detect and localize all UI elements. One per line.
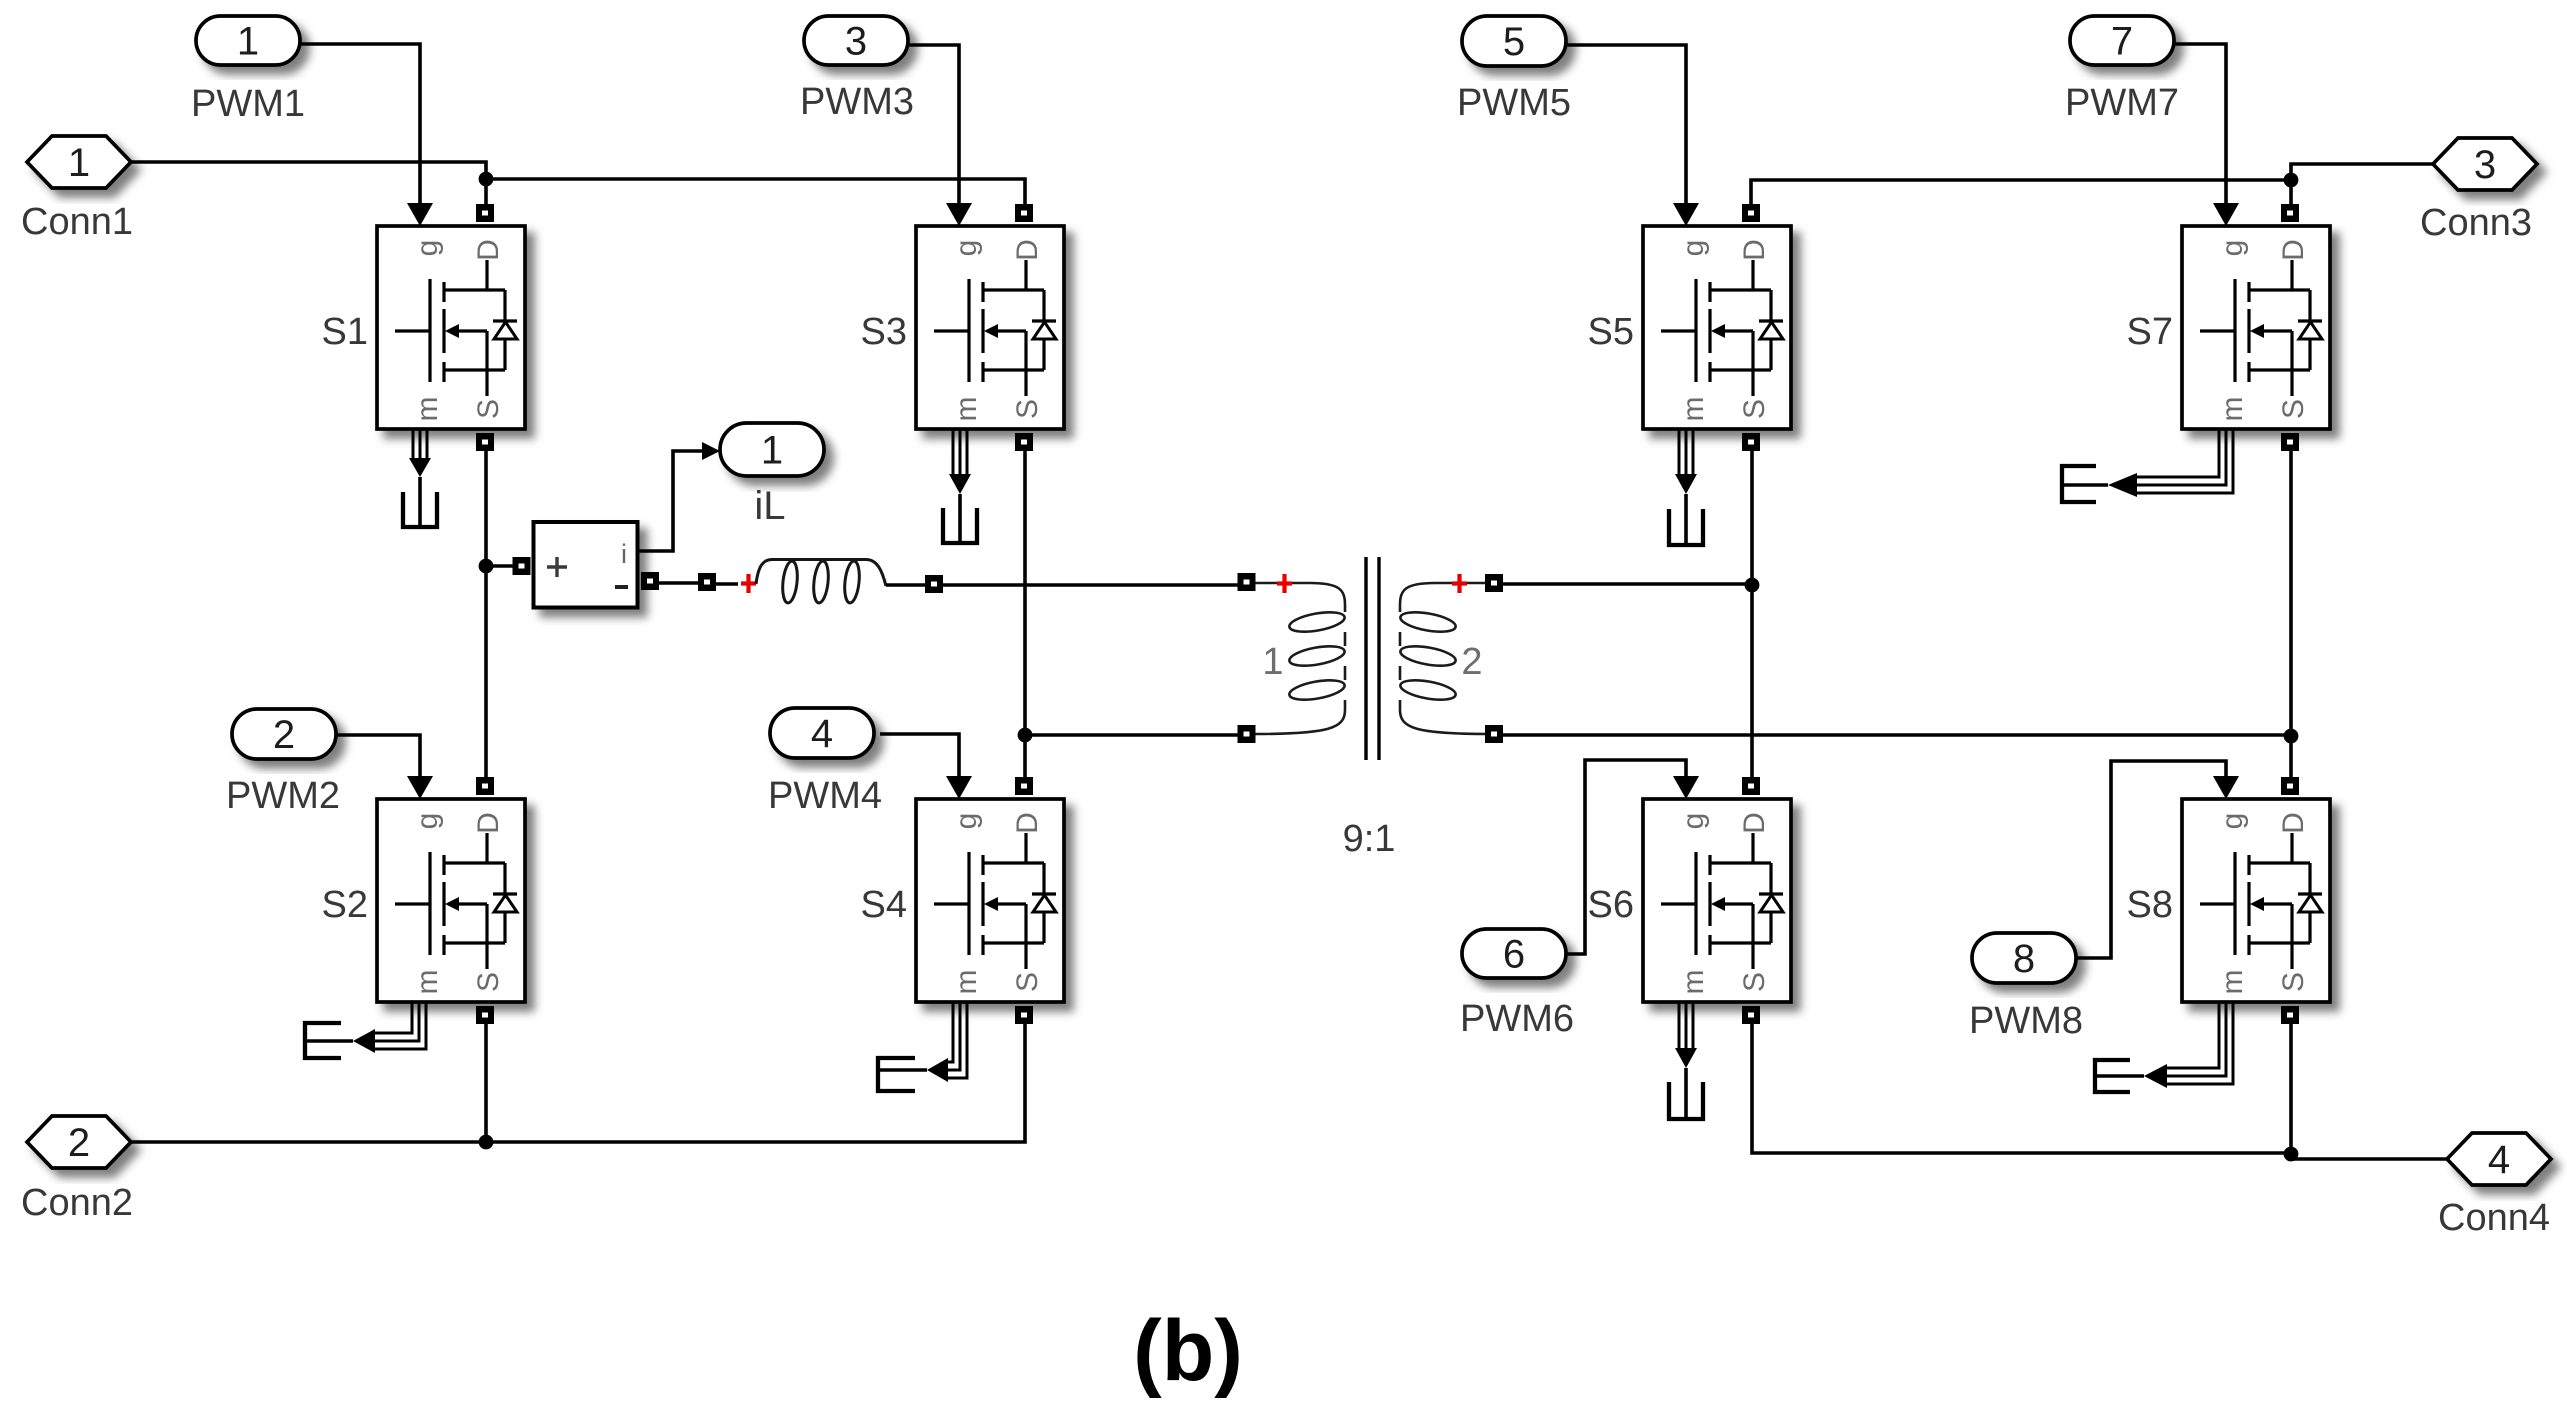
inductor L coil [756, 560, 886, 604]
sensor - output port square [641, 572, 659, 590]
S1 source port square [476, 433, 494, 451]
transformer primary winding [1255, 583, 1346, 734]
wire PWM1 to S1 gate [300, 44, 420, 205]
node H junction [2284, 1147, 2299, 1162]
svg-text:S: S [1738, 399, 1771, 419]
node B junction [2284, 173, 2299, 188]
svg-text:S2: S2 [322, 884, 368, 926]
svg-text:2: 2 [68, 1121, 90, 1165]
svg-text:S: S [472, 972, 505, 992]
svg-text:S: S [1738, 972, 1771, 992]
terminator on S2 m port [375, 1002, 426, 1049]
S2 drain port square [476, 777, 494, 795]
terminator on S4 m port [948, 1002, 967, 1078]
wire inductor to right port [886, 583, 926, 587]
inport 6 PWM6 [1462, 929, 1566, 978]
node E junction [1745, 578, 1760, 593]
wire PWM8 to S8 gate [2076, 761, 2226, 958]
wire inductor to transformer primary + terminal [942, 583, 1240, 587]
terminator on S3 m port [953, 429, 967, 474]
S8 drain port square [2281, 777, 2299, 795]
wire S8 source to node H [2289, 1022, 2293, 1153]
node D junction [1018, 728, 1033, 743]
inport 7 PWM7 [2070, 16, 2174, 65]
svg-text:g: g [2216, 240, 2249, 257]
S8 source port square [2281, 1006, 2299, 1024]
inport 5 PWM5 [1462, 16, 1566, 66]
wire node D to transformer primary - terminal [1025, 733, 1240, 737]
wire sensor i output to iL outport [637, 451, 704, 551]
svg-text:m: m [411, 397, 444, 422]
S3 source port square [1015, 433, 1033, 451]
wire S1 source to S2 drain [484, 448, 488, 779]
MOSFET switch S8 [2182, 799, 2330, 1002]
svg-text:iL: iL [754, 484, 785, 528]
svg-text:(b): (b) [1133, 1303, 1243, 1399]
svg-text:3: 3 [845, 20, 867, 64]
transformer port squares [1238, 573, 1256, 591]
transformer T (9:1) [1238, 557, 1504, 760]
node C junction [479, 559, 494, 574]
inport 4 PWM4 [770, 708, 874, 758]
svg-text:m: m [2216, 397, 2249, 422]
outport 1 iL [720, 423, 824, 476]
svg-text:D: D [1011, 239, 1044, 261]
svg-text:m: m [950, 970, 983, 995]
svg-text:9:1: 9:1 [1343, 818, 1396, 860]
svg-text:m: m [1677, 970, 1710, 995]
MOSFET switch S7 [2182, 226, 2330, 429]
wire PWM5 to S5 gate [1566, 45, 1686, 205]
wire PWM3 to S3 gate [908, 45, 959, 205]
inport 3 PWM3 [804, 16, 908, 65]
wire transformer secondary + terminal to node E [1502, 582, 1752, 586]
S7 drain port square [2281, 204, 2299, 222]
svg-text:S4: S4 [861, 884, 907, 926]
inport 1 PWM1 [196, 16, 300, 65]
svg-text:D: D [2277, 239, 2310, 261]
inductor right port square [925, 575, 943, 593]
svg-text:D: D [1738, 812, 1771, 834]
svg-text:D: D [472, 812, 505, 834]
svg-text:i: i [621, 539, 627, 569]
svg-text:PWM5: PWM5 [1457, 82, 1571, 124]
wire node B to S7 drain port [2289, 180, 2293, 218]
red + polarity mark at inductor [741, 574, 756, 593]
node F junction [2284, 729, 2299, 744]
svg-text:8: 8 [2013, 937, 2035, 981]
svg-text:2: 2 [1461, 641, 1482, 683]
MOSFET switch S6 [1643, 799, 1791, 1002]
svg-text:7: 7 [2111, 20, 2133, 64]
S5 source port square [1742, 433, 1760, 451]
S6 source port square [1742, 1006, 1760, 1024]
wire S5 drain port to node B [1751, 180, 2291, 208]
svg-text:S5: S5 [1588, 311, 1634, 353]
svg-text:3: 3 [2474, 143, 2496, 187]
svg-text:4: 4 [811, 712, 833, 756]
svg-text:S: S [1011, 399, 1044, 419]
terminator on S7 m port [2137, 429, 2233, 493]
svg-text:1: 1 [1262, 641, 1283, 683]
S6 drain port square [1742, 777, 1760, 795]
S4 source port square [1015, 1006, 1033, 1024]
sensor + input port square [513, 557, 531, 575]
S5 drain port square [1742, 204, 1760, 222]
wire PWM7 to S7 gate [2174, 44, 2226, 205]
svg-text:g: g [950, 240, 983, 257]
red + polarity mark secondary [1452, 574, 1467, 593]
svg-text:S: S [2277, 972, 2310, 992]
svg-text:D: D [1738, 239, 1771, 261]
svg-text:Conn3: Conn3 [2420, 202, 2532, 244]
connection port Conn3 [2433, 138, 2537, 190]
svg-text:g: g [950, 813, 983, 830]
inport 8 PWM8 [1972, 933, 2076, 983]
svg-text:m: m [1677, 397, 1710, 422]
terminator on S5 m port [1679, 429, 1693, 474]
red + polarity mark primary [1277, 574, 1292, 593]
svg-text:m: m [411, 970, 444, 995]
wire S6 source to node H [1752, 1022, 2291, 1153]
S1 drain port square [476, 204, 494, 222]
wire node A to S3 drain port [486, 179, 1025, 218]
connection port Conn1 [27, 136, 131, 188]
node A junction [479, 172, 494, 187]
MOSFET switch S1 [377, 226, 525, 429]
MOSFET switch S5 [1643, 226, 1791, 429]
svg-text:6: 6 [1503, 933, 1525, 977]
svg-text:S6: S6 [1588, 884, 1634, 926]
S4 drain port square [1015, 777, 1033, 795]
svg-text:g: g [1677, 240, 1710, 257]
terminator on S6 m port [1679, 1002, 1693, 1048]
svg-text:PWM4: PWM4 [768, 775, 882, 817]
svg-text:1: 1 [761, 429, 783, 473]
wire node A to S1 drain port [484, 179, 488, 218]
svg-text:D: D [472, 239, 505, 261]
svg-text:S: S [2277, 399, 2310, 419]
inport 2 PWM2 [232, 709, 336, 759]
S2 source port square [476, 1006, 494, 1024]
svg-text:S: S [1011, 972, 1044, 992]
svg-text:g: g [411, 240, 444, 257]
MOSFET switch S4 [916, 799, 1064, 1002]
wire Conn2 bus to S4 source [131, 1022, 1025, 1142]
terminator on S8 m port [2167, 1002, 2233, 1084]
node G junction [479, 1135, 494, 1150]
svg-text:5: 5 [1503, 20, 1525, 64]
wire S3 source to S4 drain [1023, 448, 1027, 779]
svg-text:g: g [1677, 813, 1710, 830]
svg-text:1: 1 [68, 141, 90, 185]
svg-text:S7: S7 [2127, 311, 2173, 353]
wire PWM4 to S4 gate [880, 734, 959, 778]
svg-text:PWM8: PWM8 [1969, 1000, 2083, 1042]
inductor left port square [698, 573, 716, 591]
transformer core [1366, 557, 1379, 760]
svg-text:S1: S1 [322, 311, 368, 353]
svg-text:2: 2 [273, 713, 295, 757]
MOSFET switch S3 [916, 226, 1064, 429]
svg-text:S: S [472, 399, 505, 419]
svg-text:g: g [411, 813, 444, 830]
svg-text:PWM3: PWM3 [800, 81, 914, 123]
svg-text:S8: S8 [2127, 884, 2173, 926]
transformer secondary winding [1399, 583, 1490, 734]
terminator on S1 m port [413, 429, 427, 458]
wire Conn1 to node A [131, 162, 486, 179]
wire node C to current sensor + input [486, 564, 516, 568]
wire node B to Conn3 [2291, 164, 2433, 180]
svg-text:PWM2: PWM2 [226, 775, 340, 817]
svg-text:S3: S3 [861, 311, 907, 353]
svg-text:D: D [2277, 812, 2310, 834]
svg-text:PWM7: PWM7 [2065, 82, 2179, 124]
svg-text:4: 4 [2488, 1138, 2510, 1182]
svg-text:Conn2: Conn2 [21, 1182, 133, 1224]
wire sensor - to inductor [658, 581, 700, 585]
svg-text:PWM6: PWM6 [1460, 998, 1574, 1040]
svg-text:PWM1: PWM1 [191, 83, 305, 125]
svg-text:Conn1: Conn1 [21, 201, 133, 243]
wire S2 source to bus node G [484, 1022, 488, 1142]
svg-text:Conn4: Conn4 [2438, 1197, 2550, 1239]
connection port Conn2 [27, 1116, 131, 1168]
current measurement sensor block [534, 522, 638, 608]
wire node H to Conn4 [2291, 1153, 2447, 1159]
wire transformer secondary - terminal to node F [1502, 733, 2291, 737]
svg-text:D: D [1011, 812, 1044, 834]
S3 drain port square [1015, 204, 1033, 222]
svg-text:g: g [2216, 813, 2249, 830]
connection port Conn4 [2447, 1133, 2551, 1185]
svg-text:1: 1 [237, 20, 259, 64]
S7 source port square [2281, 433, 2299, 451]
svg-text:m: m [2216, 970, 2249, 995]
wire PWM6 to S6 gate [1566, 760, 1686, 954]
wire S5 source to S6 drain [1750, 448, 1754, 779]
wire S7 source to S8 drain [2289, 448, 2293, 779]
svg-text:m: m [950, 397, 983, 422]
wire PWM2 to S2 gate [334, 735, 420, 778]
MOSFET switch S2 [377, 799, 525, 1002]
